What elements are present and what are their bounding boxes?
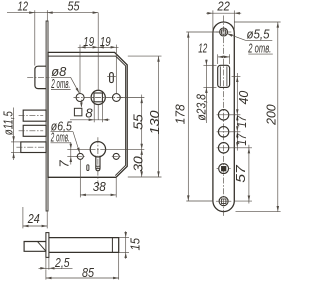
svg-text:24: 24	[27, 211, 40, 226]
svg-text:30: 30	[130, 155, 145, 171]
svg-text:57: 57	[233, 164, 248, 182]
svg-text:17: 17	[234, 115, 249, 128]
svg-text:8: 8	[85, 106, 93, 121]
svg-text:40: 40	[236, 90, 251, 104]
svg-text:2 отв.: 2 отв.	[248, 40, 272, 55]
svg-text:12: 12	[198, 41, 207, 56]
svg-text:2,5: 2,5	[54, 255, 70, 270]
svg-text:ø11,5: ø11,5	[1, 111, 16, 136]
svg-text:38: 38	[93, 179, 107, 194]
svg-text:ø23,8: ø23,8	[193, 94, 208, 121]
svg-text:7: 7	[57, 160, 72, 168]
svg-text:17: 17	[234, 133, 249, 146]
svg-text:2 отв.: 2 отв.	[50, 130, 69, 145]
svg-text:ø5,5: ø5,5	[247, 27, 271, 42]
svg-text:55: 55	[130, 113, 145, 129]
svg-text:12: 12	[17, 0, 28, 14]
svg-text:200: 200	[264, 104, 279, 126]
svg-text:178: 178	[173, 104, 188, 125]
svg-text:85: 85	[82, 265, 95, 280]
svg-text:55: 55	[68, 0, 81, 14]
svg-text:15: 15	[127, 237, 142, 250]
svg-text:22: 22	[216, 0, 230, 14]
svg-text:19: 19	[100, 34, 111, 49]
svg-text:2 отв.: 2 отв.	[51, 76, 70, 91]
svg-text:19: 19	[83, 34, 94, 49]
svg-text:130: 130	[147, 110, 162, 135]
